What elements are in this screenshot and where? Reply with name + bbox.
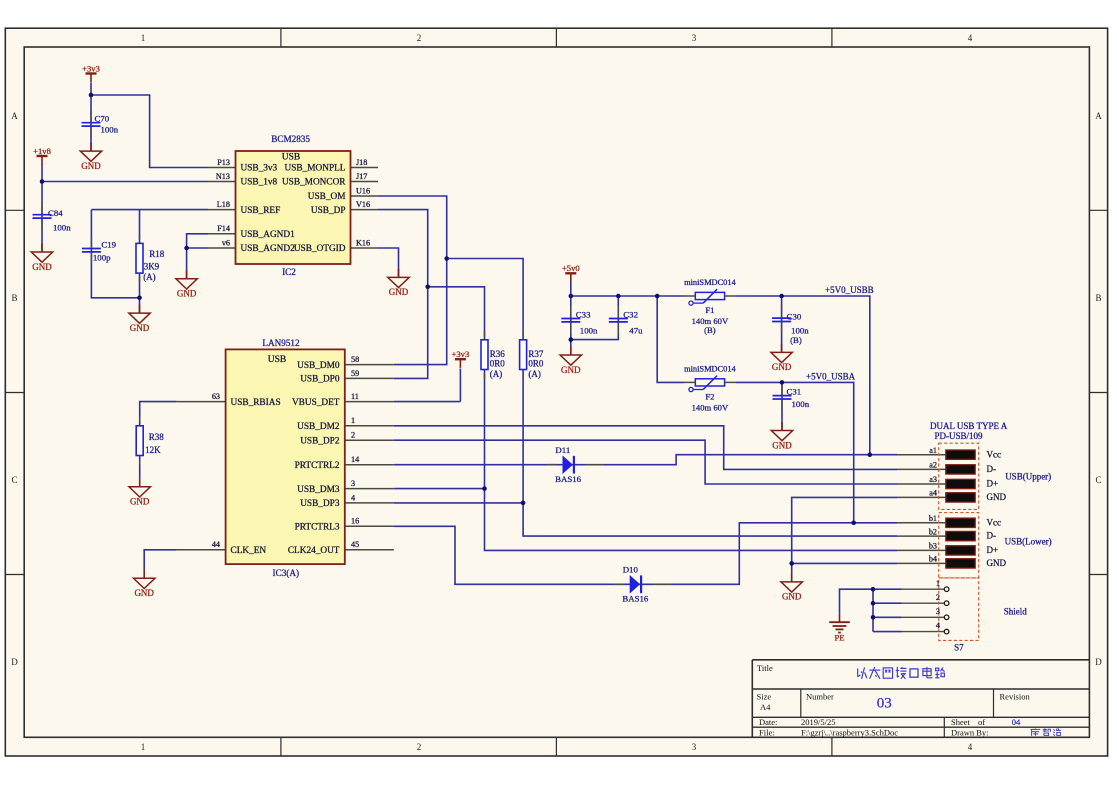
svg-text:PRTCTRL2: PRTCTRL2	[295, 461, 340, 471]
svg-text:b1: b1	[929, 514, 937, 523]
svg-text:A: A	[1095, 111, 1102, 121]
svg-text:USB_MONCOR: USB_MONCOR	[282, 178, 346, 188]
svg-text:4: 4	[351, 493, 355, 502]
svg-text:A4: A4	[760, 702, 771, 712]
svg-text:47u: 47u	[629, 326, 643, 336]
svg-text:D: D	[11, 657, 18, 667]
svg-text:100n: 100n	[580, 326, 598, 336]
svg-text:(B): (B)	[790, 335, 802, 345]
svg-text:GND: GND	[772, 362, 792, 372]
svg-text:USB_OTGID: USB_OTGID	[294, 244, 346, 254]
svg-text:1: 1	[936, 579, 940, 588]
svg-text:D: D	[1095, 657, 1102, 667]
svg-text:GND: GND	[81, 161, 101, 171]
svg-text:USB_DM2: USB_DM2	[297, 422, 340, 432]
svg-text:GND: GND	[134, 588, 154, 598]
svg-text:D-: D-	[987, 531, 997, 541]
svg-text:Shield: Shield	[1004, 607, 1028, 617]
svg-text:a3: a3	[929, 475, 937, 484]
svg-text:USB_AGND2: USB_AGND2	[241, 244, 296, 254]
svg-text:P13: P13	[217, 158, 230, 167]
svg-text:File:: File:	[759, 728, 775, 738]
svg-text:100n: 100n	[792, 399, 810, 409]
svg-text:(B): (B)	[704, 325, 716, 335]
svg-text:3: 3	[692, 33, 697, 43]
svg-text:A: A	[11, 111, 18, 121]
svg-text:63: 63	[212, 392, 220, 401]
svg-text:Revision: Revision	[1000, 692, 1031, 702]
svg-text:USB_DP2: USB_DP2	[300, 436, 340, 446]
svg-text:DUAL USB TYPE A: DUAL USB TYPE A	[930, 421, 1008, 431]
svg-text:USB(Lower): USB(Lower)	[1005, 536, 1052, 546]
svg-text:45: 45	[351, 540, 359, 549]
svg-text:B: B	[1095, 293, 1101, 303]
svg-text:J18: J18	[356, 158, 367, 167]
svg-text:U16: U16	[356, 186, 370, 195]
svg-text:USB_1v8: USB_1v8	[241, 178, 278, 188]
svg-text:D+: D+	[987, 545, 999, 555]
svg-text:R18: R18	[149, 249, 165, 259]
svg-text:R36: R36	[490, 349, 506, 359]
svg-text:USB_MONPLL: USB_MONPLL	[285, 164, 346, 174]
svg-text:04: 04	[1012, 717, 1021, 727]
svg-text:+5v0: +5v0	[562, 263, 580, 273]
svg-text:GND: GND	[130, 497, 150, 507]
svg-text:3: 3	[692, 742, 697, 752]
svg-text:D-: D-	[987, 464, 997, 474]
svg-text:K16: K16	[356, 238, 370, 247]
svg-text:D11: D11	[555, 445, 570, 455]
svg-text:Size: Size	[757, 692, 772, 702]
svg-text:11: 11	[351, 392, 359, 401]
svg-text:2: 2	[417, 742, 422, 752]
svg-text:GND: GND	[130, 323, 150, 333]
svg-text:+5V0_USBA: +5V0_USBA	[806, 372, 856, 382]
svg-text:100n: 100n	[53, 223, 71, 233]
svg-text:Title: Title	[757, 663, 773, 673]
svg-text:D10: D10	[623, 565, 639, 575]
svg-text:58: 58	[351, 355, 359, 364]
svg-text:C19: C19	[101, 240, 116, 250]
svg-text:a1: a1	[929, 446, 937, 455]
svg-text:D+: D+	[987, 479, 999, 489]
svg-text:v6: v6	[222, 238, 230, 247]
svg-text:USB_RBIAS: USB_RBIAS	[231, 398, 281, 408]
svg-text:USB_DP0: USB_DP0	[300, 375, 340, 385]
svg-text:miniSMDC014: miniSMDC014	[684, 365, 736, 374]
svg-text:4: 4	[936, 621, 940, 630]
svg-text:LAN9512: LAN9512	[262, 338, 300, 348]
svg-text:+5V0_USBB: +5V0_USBB	[825, 285, 874, 295]
svg-text:+3v3: +3v3	[82, 63, 100, 73]
svg-text:R37: R37	[528, 349, 544, 359]
svg-text:12K: 12K	[145, 445, 161, 455]
svg-text:16: 16	[351, 517, 359, 526]
svg-text:PRTCTRL3: PRTCTRL3	[295, 523, 340, 533]
svg-text:a4: a4	[929, 489, 937, 498]
svg-text:BAS16: BAS16	[555, 474, 582, 484]
svg-text:59: 59	[351, 369, 359, 378]
svg-text:V16: V16	[356, 200, 370, 209]
svg-text:USB: USB	[282, 153, 300, 163]
svg-text:CLK_EN: CLK_EN	[231, 546, 267, 556]
svg-text:C: C	[1095, 475, 1101, 485]
svg-text:USB_REF: USB_REF	[241, 206, 281, 216]
svg-text:F:\gzrj\..\raspberry3.SchDoc: F:\gzrj\..\raspberry3.SchDoc	[801, 728, 898, 738]
svg-text:of: of	[978, 717, 985, 727]
svg-text:+1v8: +1v8	[33, 146, 51, 156]
svg-text:VBUS_DET: VBUS_DET	[292, 398, 340, 408]
svg-text:GND: GND	[389, 287, 409, 297]
svg-text:0R0: 0R0	[490, 359, 506, 369]
svg-text:R38: R38	[149, 432, 165, 442]
svg-text:100n: 100n	[101, 124, 119, 134]
svg-text:GND: GND	[32, 262, 52, 272]
svg-text:(A): (A)	[490, 369, 503, 379]
svg-text:44: 44	[212, 540, 220, 549]
svg-text:J17: J17	[356, 172, 367, 181]
svg-text:C70: C70	[95, 114, 110, 124]
svg-text:F14: F14	[217, 224, 230, 233]
svg-text:S7: S7	[954, 643, 964, 653]
svg-text:miniSMDC014: miniSMDC014	[684, 278, 736, 287]
svg-text:GND: GND	[987, 558, 1007, 568]
svg-text:a2: a2	[929, 461, 937, 470]
svg-text:CLK24_OUT: CLK24_OUT	[288, 546, 340, 556]
svg-text:USB_DM0: USB_DM0	[297, 361, 340, 371]
svg-text:+3v3: +3v3	[452, 349, 470, 359]
svg-text:Sheet: Sheet	[951, 717, 971, 727]
svg-text:14: 14	[351, 455, 359, 464]
svg-text:3K9: 3K9	[144, 262, 160, 272]
svg-text:IC2: IC2	[282, 267, 296, 277]
svg-text:b4: b4	[929, 555, 937, 564]
svg-text:1: 1	[141, 742, 146, 752]
svg-text:Date:: Date:	[759, 717, 777, 727]
svg-text:100n: 100n	[791, 325, 809, 335]
svg-text:IC3(A): IC3(A)	[273, 568, 300, 578]
svg-text:b2: b2	[929, 527, 937, 536]
svg-text:2019/5/25: 2019/5/25	[801, 717, 835, 727]
svg-text:USB_3v3: USB_3v3	[241, 164, 278, 174]
svg-text:C: C	[11, 475, 17, 485]
svg-text:BAS16: BAS16	[622, 593, 649, 603]
svg-text:0R0: 0R0	[528, 359, 544, 369]
svg-text:3: 3	[936, 607, 940, 616]
svg-text:(A): (A)	[528, 369, 541, 379]
svg-text:USB_DP: USB_DP	[311, 206, 346, 216]
svg-text:B: B	[11, 293, 17, 303]
svg-text:3: 3	[351, 479, 355, 488]
svg-text:140m 60V: 140m 60V	[692, 402, 729, 412]
svg-text:GND: GND	[782, 592, 802, 602]
svg-text:100p: 100p	[93, 253, 111, 263]
svg-text:2: 2	[417, 33, 422, 43]
svg-text:GND: GND	[772, 440, 792, 450]
svg-text:C30: C30	[787, 312, 802, 322]
svg-text:1: 1	[351, 416, 355, 425]
svg-text:C31: C31	[787, 387, 802, 397]
svg-text:Vcc: Vcc	[987, 517, 1002, 527]
svg-text:N13: N13	[216, 172, 230, 181]
svg-text:4: 4	[968, 33, 973, 43]
svg-text:C32: C32	[623, 310, 638, 320]
svg-text:USB: USB	[268, 355, 286, 365]
svg-text:PE: PE	[834, 633, 844, 643]
svg-text:USB_DM3: USB_DM3	[297, 485, 340, 495]
svg-text:USB_AGND1: USB_AGND1	[241, 230, 296, 240]
svg-text:4: 4	[968, 742, 973, 752]
svg-text:USB(Upper): USB(Upper)	[1005, 472, 1051, 482]
svg-text:2: 2	[351, 431, 355, 440]
svg-text:Vcc: Vcc	[987, 449, 1002, 459]
svg-text:GND: GND	[987, 492, 1007, 502]
svg-text:F1: F1	[705, 305, 714, 315]
svg-text:(A): (A)	[143, 272, 156, 282]
svg-text:PD-USB/109: PD-USB/109	[935, 431, 984, 441]
svg-text:1: 1	[141, 33, 146, 43]
svg-text:GND: GND	[177, 289, 197, 299]
svg-text:2: 2	[936, 593, 940, 602]
svg-text:F2: F2	[705, 391, 714, 401]
svg-text:USB_OM: USB_OM	[308, 192, 346, 202]
svg-text:b3: b3	[929, 542, 937, 551]
svg-text:L18: L18	[217, 200, 230, 209]
svg-text:USB_DP3: USB_DP3	[300, 499, 340, 509]
svg-text:Number: Number	[806, 692, 834, 702]
svg-text:GND: GND	[561, 365, 581, 375]
svg-text:03: 03	[877, 695, 892, 711]
svg-text:BCM2835: BCM2835	[271, 134, 310, 144]
svg-text:C84: C84	[48, 208, 63, 218]
svg-text:C33: C33	[576, 310, 591, 320]
svg-text:Drawn By:: Drawn By:	[951, 727, 989, 737]
